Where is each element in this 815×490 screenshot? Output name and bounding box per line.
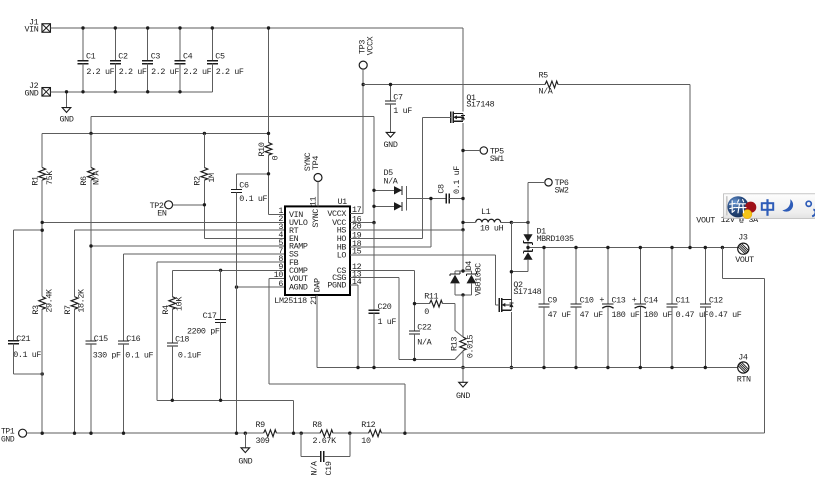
svg-text:R10: R10 (257, 142, 267, 156)
wire VOUT sense drop (722, 248, 764, 434)
pin 1 VIN label (278, 206, 303, 220)
capacitor C22 N/A (409, 323, 433, 360)
node rail C6 (235, 432, 238, 435)
wire CS (pin 12) (350, 270, 415, 331)
svg-text:C10: C10 (580, 295, 594, 305)
wire GND stub J2 (66, 92, 68, 108)
resistor R13 0.015 (449, 335, 475, 359)
wire Q1 drain drop (462, 28, 464, 112)
svg-text:C21: C21 (16, 334, 30, 344)
resistor R10 0 (257, 142, 281, 160)
node PGND C20 (372, 366, 375, 369)
svg-text:DAP: DAP (312, 278, 322, 292)
inductor L1 10 uH (463, 207, 511, 234)
svg-text:GND: GND (1, 435, 15, 444)
test point TP2 EN (150, 201, 173, 219)
pin 9 COMP label (278, 262, 308, 276)
node C4 top (178, 26, 181, 29)
svg-text:1 uF: 1 uF (378, 317, 397, 327)
wire TP2 to R2 column (173, 204, 205, 206)
resistor R9 309 (256, 420, 277, 446)
svg-text:1 uF: 1 uF (393, 106, 412, 116)
svg-text:C4: C4 (183, 52, 193, 62)
svg-text:J4: J4 (738, 352, 748, 362)
svg-text:0: 0 (271, 155, 281, 160)
svg-text:C20: C20 (378, 302, 392, 312)
svg-text:C15: C15 (94, 334, 108, 344)
wire R10 bottom to pin 1 (269, 155, 285, 214)
svg-text:C5: C5 (215, 52, 225, 62)
test point TP3 VCCX (358, 36, 376, 69)
capacitor C4 2.2 uF (175, 28, 212, 92)
wire VIN rail (51, 27, 463, 29)
node Q2 source on PGND rail (510, 366, 513, 369)
svg-text:GND: GND (456, 391, 470, 401)
svg-text:R7: R7 (63, 305, 73, 315)
wire D1 bottom to SW2 column (511, 271, 528, 273)
capacitor C5 2.2 uF (207, 28, 244, 92)
node C19 left (300, 432, 303, 435)
svg-text:+: + (599, 295, 604, 305)
svg-text:GND: GND (384, 140, 398, 150)
svg-text:Si7148: Si7148 (513, 287, 541, 297)
node UVLO at R1 (41, 221, 44, 224)
svg-text:R6: R6 (79, 176, 89, 186)
node R13 bottom on PGND rail (461, 366, 464, 369)
svg-text:SW1: SW1 (490, 154, 504, 164)
connector J1 (VIN input) (25, 17, 51, 34)
test point TP4 SYNC (303, 152, 322, 181)
node R5 on VOUT rail (688, 246, 691, 249)
diode D4 VB0100C (dual schottky) (450, 261, 483, 296)
node J3 branch (721, 246, 724, 249)
node rail GND stub (244, 432, 247, 435)
node rail R3 (41, 432, 44, 435)
wire bottom GND rail (27, 432, 263, 434)
wire HS (pin 20) (350, 229, 463, 231)
resistor R12 10 (361, 420, 381, 446)
capacitor C2 2.2 uF (110, 28, 147, 92)
wire VCC (pin 16) (350, 222, 374, 224)
wire Q2 source (510, 312, 512, 368)
pin 19 HO label (337, 230, 362, 244)
svg-text:N/A: N/A (91, 170, 101, 185)
svg-text:0.1 uF: 0.1 uF (125, 350, 153, 360)
node C11 bottom (670, 366, 673, 369)
wire RT (pin 3) (75, 230, 285, 296)
svg-text:VOUT: VOUT (735, 255, 754, 265)
pin 17 VCCX label (327, 205, 361, 219)
capacitor C9 47 uF (539, 248, 572, 368)
resistor R8 2.67K (313, 420, 338, 446)
pin 21 DAP label (309, 278, 322, 305)
resistor R2 1M (193, 133, 218, 185)
svg-text:47 uF: 47 uF (580, 310, 604, 320)
connector J4 RTN (737, 352, 751, 384)
svg-text:R9: R9 (256, 420, 266, 430)
node FB drop (292, 432, 295, 435)
resistor R1 75K (30, 133, 55, 296)
svg-text:2.2 uF: 2.2 uF (183, 67, 211, 77)
svg-text:C9: C9 (548, 295, 558, 305)
svg-text:R11: R11 (424, 291, 438, 301)
node C14 bottom (639, 366, 642, 369)
node mid rail R10 (267, 132, 270, 135)
test point TP6 SW2 (545, 178, 569, 196)
capacitor C8 0.1 uF (437, 166, 463, 204)
capacitor C16 0.1 uF (118, 334, 154, 433)
IME mode glyph 中 (762, 199, 773, 216)
node D4 top at SW1 (461, 269, 464, 272)
wire FB node segment (277, 432, 321, 434)
svg-text:C11: C11 (676, 295, 690, 305)
node C4 bottom (178, 90, 181, 93)
svg-text:2.2 uF: 2.2 uF (119, 67, 147, 77)
capacitor C13 180 uF (599, 248, 639, 368)
wire TP4 stub (317, 182, 319, 207)
svg-text:C1: C1 (86, 52, 96, 62)
node R11 left on CS column (413, 302, 416, 305)
node C7 top (389, 83, 392, 86)
svg-text:R4: R4 (161, 305, 171, 315)
pin 15 LO label (337, 247, 362, 261)
IME punctuation icon (806, 201, 815, 216)
wire R7 bottom (74, 309, 76, 433)
node C3 top (146, 26, 149, 29)
svg-text:0.1 uF: 0.1 uF (452, 166, 462, 194)
svg-text:1M: 1M (207, 173, 217, 183)
wire VCCX rail (363, 84, 545, 86)
node VOUT pin10 tap (403, 432, 406, 435)
svg-text:N/A: N/A (310, 460, 320, 475)
svg-text:U1: U1 (338, 197, 348, 207)
svg-text:10 uH: 10 uH (480, 224, 504, 234)
svg-text:J3: J3 (738, 232, 748, 242)
capacitor C14 180 uF (632, 248, 672, 368)
wire GND stub (bottom) (244, 433, 246, 448)
svg-text:VB0100C: VB0100C (474, 263, 484, 296)
connector J2 (GND input) (25, 81, 51, 99)
svg-text:2.2 uF: 2.2 uF (151, 67, 179, 77)
svg-text:C13: C13 (612, 295, 626, 305)
capacitor C10 47 uF (571, 248, 604, 368)
svg-text:0.1 uF: 0.1 uF (239, 194, 267, 204)
node C14 top (639, 246, 642, 249)
node D1 cathode on VOUT rail (526, 246, 529, 249)
svg-text:47 uF: 47 uF (548, 310, 572, 320)
capacitor C12 0.47 uF (700, 248, 742, 368)
node SW2 at Q2 drain (510, 270, 513, 273)
node C2 bottom (114, 90, 117, 93)
node C21 bottom at R3 (41, 372, 44, 375)
svg-text:N/A: N/A (539, 87, 554, 97)
node FB bus C17 (219, 399, 222, 402)
svg-text:0.1 uF: 0.1 uF (13, 350, 41, 360)
svg-text:330 pF: 330 pF (93, 350, 121, 360)
pin 10 VOUT label (274, 270, 308, 284)
svg-text:0.1uF: 0.1uF (178, 351, 202, 361)
wire SW1 to D4 (462, 230, 464, 271)
svg-text:VIN: VIN (25, 25, 39, 35)
wire J3 branch (722, 247, 737, 249)
svg-text:29.4K: 29.4K (44, 288, 54, 313)
svg-text:6: 6 (278, 279, 283, 289)
pin 4 EN label (278, 230, 298, 244)
wire Q1 gate to HO (422, 117, 451, 238)
svg-text:180 uF: 180 uF (612, 310, 640, 320)
node SW2 at D1 (526, 221, 529, 224)
wire FB bottom bus (157, 400, 294, 433)
node C2 top (114, 26, 117, 29)
pin 12 CS label (337, 262, 362, 276)
node C3 bottom (146, 90, 149, 93)
wire VOUT rail (528, 247, 738, 249)
node C22 bottom on CSG (413, 358, 416, 361)
pin 8 FB label (278, 254, 298, 268)
node rail C16 (122, 432, 125, 435)
IME toolbar panel (724, 194, 815, 219)
wire C21 top link (13, 229, 42, 231)
svg-text:VOUT: VOUT (696, 216, 715, 226)
svg-text:MBRD1035: MBRD1035 (537, 234, 575, 244)
node D5 anode bottom (372, 205, 375, 208)
svg-text:R1: R1 (30, 176, 40, 186)
resistor R5 N/A (539, 71, 559, 97)
wire R13 bottom (462, 351, 464, 368)
node C10 bottom (574, 366, 577, 369)
wire SW2 link (511, 221, 528, 223)
capacitor C6 0.1 uF (231, 174, 268, 433)
svg-text:10K: 10K (174, 296, 184, 311)
svg-text:TP4: TP4 (311, 156, 321, 170)
wire COMP (pin 9) (172, 270, 284, 296)
svg-text:C17: C17 (203, 311, 217, 321)
svg-text:R13: R13 (449, 337, 459, 351)
wire R3 bottom (41, 309, 43, 433)
test point TP1 GND (1, 427, 27, 444)
node C1 bottom (81, 90, 84, 93)
wire C6 top link (237, 173, 269, 175)
node C11 top (670, 246, 673, 249)
svg-text:GND: GND (60, 115, 74, 125)
wire D4 to R13 (462, 295, 464, 337)
wire DAP stub (316, 295, 318, 368)
wire R11 right kelvin (443, 304, 464, 337)
svg-text:C16: C16 (126, 334, 140, 344)
capacitor C20 1 uF (369, 223, 397, 368)
wire GND stub (power) (462, 368, 464, 383)
node VOUT label (696, 215, 759, 226)
node VCC junction (372, 221, 375, 224)
svg-text:0: 0 (424, 307, 429, 317)
svg-text:N/A: N/A (417, 337, 432, 347)
pin 14 PGND label (327, 277, 361, 291)
node D5 anode top (372, 189, 375, 192)
resistor R3 29.4K (31, 288, 54, 315)
resistor R7 18.2K (63, 288, 86, 315)
ground (input) (60, 108, 74, 125)
node D4 bottom (461, 293, 464, 296)
node C12 top (704, 246, 707, 249)
svg-text:11: 11 (308, 197, 318, 207)
svg-text:C14: C14 (644, 295, 658, 305)
svg-text:2.67K: 2.67K (313, 436, 338, 446)
pin 2 UVLO label (278, 214, 308, 228)
IME logo sphere (727, 196, 756, 219)
test point TP5 SW1 (480, 146, 504, 164)
node RAMP at R6 column (89, 244, 92, 247)
svg-text:0.47 uF: 0.47 uF (709, 310, 742, 320)
node R10 top on VIN rail (267, 26, 270, 29)
wire R11 left (415, 303, 430, 305)
wire VCCX column (350, 69, 363, 213)
svg-text:PGND: PGND (327, 281, 346, 291)
wire PGND rail (317, 367, 738, 369)
wire D5 cathode to C8 (406, 198, 446, 200)
wire C21 bottom link (13, 373, 42, 375)
node FB bus C18 (171, 399, 174, 402)
node rail R7 (73, 432, 76, 435)
wire VOUT sense (pin 10) (269, 278, 405, 433)
pin 18 HB label (337, 239, 362, 253)
resistor R11 0 (424, 291, 442, 317)
wire R5 to VOUT (558, 85, 690, 248)
diode D5 N/A (dual) (374, 168, 406, 211)
node C13 bottom (606, 366, 609, 369)
svg-text:C22: C22 (417, 323, 431, 333)
node COMP at C17 (219, 269, 222, 272)
wire PGND (pin 14) (350, 285, 358, 368)
wire R6 column (90, 180, 92, 341)
ground (power) (456, 382, 470, 401)
node C9 bottom (542, 366, 545, 369)
svg-text:N/A: N/A (384, 176, 399, 186)
ground (C7) (384, 132, 398, 150)
svg-text:R2: R2 (193, 176, 203, 186)
wire AGND (pin 6) (237, 286, 285, 288)
capacitor C15 330 pF (86, 334, 122, 433)
node J2 GND stub (65, 90, 68, 93)
svg-text:18.2K: 18.2K (77, 288, 87, 313)
wire LO (pin 15) to Q2 gate (350, 255, 499, 305)
svg-text:2.2 uF: 2.2 uF (86, 67, 114, 77)
pin 11 SYNC label (308, 197, 321, 228)
pin 5 RAMP label (278, 238, 308, 252)
svg-text:EN: EN (157, 209, 167, 219)
svg-text:LO: LO (337, 250, 347, 260)
transistor Q1 Si7148 (451, 93, 495, 123)
IME crescent icon (782, 199, 793, 211)
wire TP5 link (463, 150, 480, 152)
svg-text:GND: GND (25, 89, 39, 99)
capacitor C3 2.2 uF (142, 28, 179, 92)
wire VCC feed riser (91, 117, 374, 223)
resistor R4 10K (161, 296, 184, 315)
capacitor C11 0.47 uF (667, 248, 709, 368)
svg-text:2.2 uF: 2.2 uF (216, 67, 244, 77)
node C8 at SW1 (461, 197, 464, 200)
node C5 top (211, 26, 214, 29)
node AGND at C6 column (235, 285, 238, 288)
transistor Q2 Si7148 (499, 280, 541, 312)
connector J3 VOUT (735, 232, 754, 265)
capacitor C21 0.1 uF (8, 230, 42, 374)
wire FB (pin 8) (157, 262, 285, 400)
capacitor C7 1 uF (385, 85, 412, 133)
svg-text:309: 309 (256, 436, 270, 446)
svg-text:C6: C6 (239, 181, 249, 191)
node VCCX rail (362, 83, 365, 86)
wire HO (pin 19) (350, 238, 422, 240)
svg-text:C12: C12 (709, 295, 723, 305)
svg-text:LM25118: LM25118 (274, 296, 307, 306)
node TP5 junction (461, 149, 464, 152)
node C6 link at R10 column (267, 172, 270, 175)
node C1 top (81, 26, 84, 29)
pin 3 RT label (278, 222, 298, 236)
node mid rail R2 (203, 132, 206, 135)
svg-text:Si7148: Si7148 (466, 100, 494, 110)
wire input GND rail (51, 91, 213, 93)
ground (bottom) (238, 448, 252, 467)
wire SW2 column (510, 222, 512, 299)
svg-text:GND: GND (238, 456, 252, 466)
svg-text:R12: R12 (361, 420, 375, 430)
node C10 top (574, 246, 577, 249)
resistor R6 N/A (79, 133, 101, 185)
pin 16 VCC label (332, 214, 362, 228)
node PGND pin14 (356, 366, 359, 369)
op-amp U1 LM25118 body (274, 197, 350, 306)
wire CSG (pin 13) (350, 278, 463, 360)
svg-text:10: 10 (361, 436, 371, 446)
svg-text:AGND: AGND (289, 283, 308, 293)
svg-text:R5: R5 (539, 71, 549, 81)
wire VOUT sense bottom (382, 432, 765, 434)
svg-text:C8: C8 (437, 184, 447, 194)
svg-text:2200 pF: 2200 pF (187, 327, 220, 337)
svg-text:SYNC: SYNC (311, 209, 321, 228)
svg-text:R3: R3 (31, 305, 41, 315)
node HB at C8 (429, 197, 432, 200)
capacitor C1 2.2 uF (78, 28, 115, 92)
node C21 link at R1 column (41, 229, 44, 232)
svg-text:L1: L1 (481, 207, 491, 217)
node L1 right (510, 221, 513, 224)
node HS at SW1 (461, 228, 464, 231)
svg-text:RTN: RTN (737, 374, 751, 384)
pin 7 SS label (278, 246, 298, 260)
node C12 bottom (704, 366, 707, 369)
wire TP6 link (528, 182, 545, 222)
wire mid rail (UVLO top) (42, 132, 268, 134)
diode D1 MBRD1035 (dual schottky) (523, 222, 574, 271)
svg-text:SW2: SW2 (555, 186, 569, 196)
capacitor C18 0.1uF (167, 309, 202, 400)
wire R10 column top (268, 28, 270, 143)
node rail C15 (89, 432, 92, 435)
node mid rail R6 (89, 132, 92, 135)
svg-text:180 uF: 180 uF (644, 310, 672, 320)
svg-text:C19: C19 (324, 461, 334, 475)
svg-text:0.47 uF: 0.47 uF (676, 310, 709, 320)
svg-text:0.015: 0.015 (465, 335, 475, 359)
svg-text:+: + (632, 295, 637, 305)
svg-text:C2: C2 (118, 52, 128, 62)
svg-text:D4: D4 (464, 261, 474, 271)
svg-text:VCCX: VCCX (365, 36, 375, 55)
pin 20 HS label (337, 222, 362, 236)
